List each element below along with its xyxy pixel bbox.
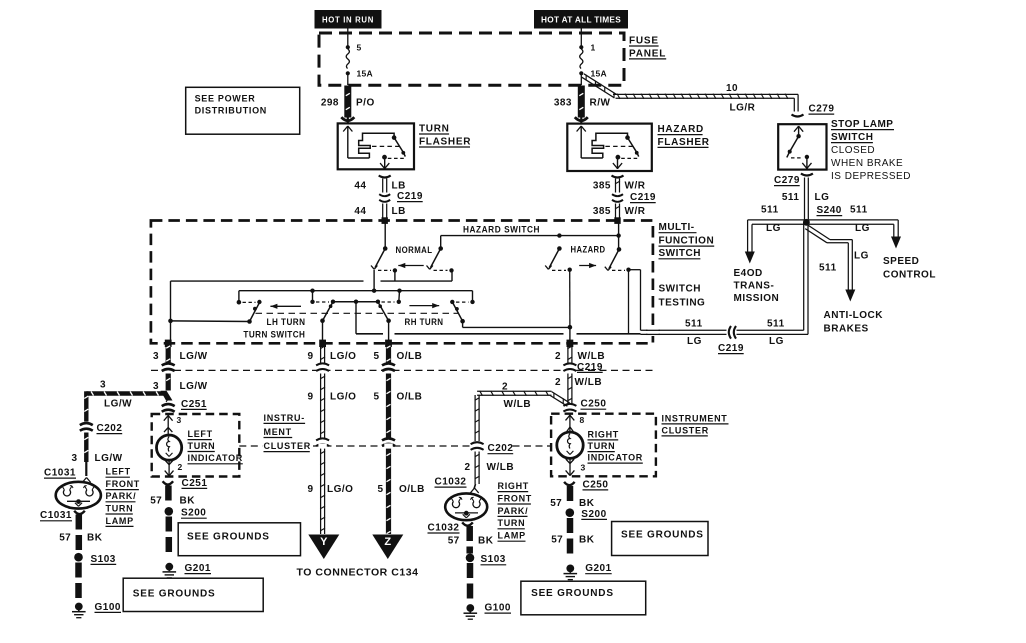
svg-text:LG/O: LG/O [327,484,353,495]
svg-text:TURN: TURN [419,123,450,134]
svg-text:Z: Z [384,536,391,548]
svg-text:INSTRUMENT: INSTRUMENT [662,413,728,423]
svg-text:BK: BK [579,534,595,545]
svg-text:C219: C219 [397,191,423,202]
svg-text:TURN: TURN [106,503,134,513]
svg-text:SEE GROUNDS: SEE GROUNDS [621,529,704,540]
svg-text:FUSE: FUSE [629,35,659,46]
pin 9 drop [322,321,324,344]
svg-text:O/LB: O/LB [397,351,423,362]
svg-text:CLUSTER: CLUSTER [662,425,709,435]
svg-text:8: 8 [580,415,585,425]
svg-text:LG/O: LG/O [330,351,356,362]
svg-text:5: 5 [357,42,362,52]
svg-text:BK: BK [579,498,595,509]
svg-text:3: 3 [71,453,77,464]
svg-text:FLASHER: FLASHER [419,136,471,147]
svg-text:57: 57 [448,535,460,546]
svg-text:W/LB: W/LB [578,351,606,362]
svg-text:FRONT: FRONT [498,493,533,503]
wire 57 BK right indicator lower [567,518,574,533]
hazard contact drop to 511 exit [628,270,630,334]
svg-text:2: 2 [464,462,470,473]
connector C202 left [80,423,93,425]
wire 57 BK left lamp [76,515,83,530]
svg-text:W/R: W/R [625,180,646,191]
wire 2 W/LB branch to right lamp [477,394,551,396]
wire 2 W/LB pin segment [567,343,569,364]
svg-text:MISSION: MISSION [734,293,780,304]
left turn indicator lamp [167,415,169,436]
svg-text:BRAKES: BRAKES [824,323,869,334]
svg-text:W/LB: W/LB [487,462,515,473]
svg-text:C250: C250 [581,399,607,410]
svg-text:STOP LAMP: STOP LAMP [831,119,893,130]
svg-text:W/LB: W/LB [504,399,532,410]
ground G100 left [75,603,83,611]
pin 2 drop [569,327,571,343]
pin 5 drop [388,321,390,344]
fuse 5 15A [347,28,349,47]
svg-text:FUNCTION: FUNCTION [659,236,715,247]
svg-text:C250: C250 [583,479,609,490]
wire 57 BK left indicator [165,486,172,501]
svg-text:LAMP: LAMP [498,531,526,541]
svg-text:O/LB: O/LB [397,391,423,402]
svg-text:HAZARD: HAZARD [658,124,704,135]
svg-text:3: 3 [153,351,159,362]
svg-text:INDICATOR: INDICATOR [188,453,243,463]
svg-text:LEFT: LEFT [188,429,213,439]
svg-text:BK: BK [87,532,103,543]
svg-text:44: 44 [354,180,366,191]
right turn indicator dashed box [551,414,656,477]
label HOT AT ALL TIMES [535,11,628,29]
svg-text:LG/O: LG/O [330,391,356,402]
svg-text:LG/W: LG/W [95,453,123,464]
svg-text:SWITCH: SWITCH [659,284,701,295]
svg-text:HOT IN RUN: HOT IN RUN [322,15,374,25]
svg-text:P/O: P/O [356,97,375,108]
connector C250 below indicator [564,482,575,485]
right turn indicator lamp [569,414,571,432]
svg-text:Y: Y [320,536,328,548]
svg-text:3: 3 [581,463,586,473]
svg-text:385: 385 [593,180,611,191]
svg-text:R/W: R/W [590,97,611,108]
wire 298 P/O [344,86,351,118]
turn switch dashed row [256,312,460,314]
wire 44 into normal switch [384,221,386,249]
wire to G201 left [166,517,173,532]
wire 511 LG stop lamp to S240 [804,178,806,222]
svg-text:INDICATOR: INDICATOR [588,453,643,463]
left turn indicator dashed box [152,414,240,477]
svg-text:HAZARD SWITCH: HAZARD SWITCH [463,225,540,235]
left front park/turn lamp C1031 [85,462,87,476]
svg-text:511: 511 [819,263,837,274]
svg-text:44: 44 [354,206,366,217]
wire 44 LB with connector C219 [379,176,391,178]
svg-text:CONTROL: CONTROL [883,269,936,280]
see power distribution box [186,87,300,134]
svg-text:3: 3 [177,415,182,425]
svg-text:G201: G201 [185,563,211,574]
wire 3 LG/W branch to left lamp [86,391,163,395]
svg-text:57: 57 [150,495,162,506]
hazard flasher U2 [567,124,652,171]
svg-text:TRANS-: TRANS- [734,281,775,292]
svg-text:NORMAL: NORMAL [396,245,433,255]
svg-text:LG/W: LG/W [104,398,132,409]
stop lamp switch S1 [778,124,826,169]
splice S103 left [74,553,83,562]
bus line A [171,280,364,282]
svg-text:LG: LG [766,223,781,234]
svg-text:W/LB: W/LB [575,377,603,388]
svg-text:10: 10 [726,83,738,94]
connector C279 bottom [801,174,813,176]
svg-text:HOT AT ALL TIMES: HOT AT ALL TIMES [541,15,621,25]
svg-text:INSTRU-: INSTRU- [264,413,305,423]
svg-text:S103: S103 [481,554,506,565]
svg-text:PARK/: PARK/ [106,491,137,501]
LH turn contact [237,300,242,305]
svg-text:DISTRIBUTION: DISTRIBUTION [195,106,267,116]
svg-text:RIGHT: RIGHT [498,481,530,491]
hazard switch feed line [441,235,619,237]
pin 3 drop [170,321,172,343]
svg-text:LAMP: LAMP [106,516,134,526]
svg-text:511: 511 [767,319,785,330]
svg-text:LG/W: LG/W [180,351,208,362]
splice S200 left [165,507,174,516]
svg-text:S200: S200 [181,508,206,519]
normal switch contacts [383,246,388,251]
svg-text:LEFT: LEFT [106,467,131,477]
wire 385 W/R with connector C219 [612,176,624,178]
svg-text:SWITCH: SWITCH [831,132,873,143]
connector C1032 lamp bottom [462,522,473,525]
svg-text:LG: LG [769,336,784,347]
hazard switch contacts [557,246,562,251]
svg-text:W/R: W/R [625,206,646,217]
svg-text:TURN: TURN [498,518,526,528]
svg-text:S200: S200 [581,509,606,520]
svg-text:RH TURN: RH TURN [405,317,444,327]
svg-text:SPEED: SPEED [883,256,919,267]
svg-text:3: 3 [100,380,106,391]
svg-text:511: 511 [761,205,779,216]
svg-text:MULTI-: MULTI- [659,222,695,233]
svg-text:SEE GROUNDS: SEE GROUNDS [531,588,614,599]
wire 383 R/W [578,86,585,118]
ground G201 left [165,563,173,571]
svg-text:LH TURN: LH TURN [267,317,306,327]
svg-text:TESTING: TESTING [659,298,706,309]
connector C1031 lamp bottom [74,511,85,514]
svg-text:ANTI-LOCK: ANTI-LOCK [824,310,884,321]
branch to E4OD transmission [748,219,804,221]
svg-text:FLASHER: FLASHER [658,137,710,148]
svg-text:LB: LB [392,206,406,217]
svg-text:LG/R: LG/R [730,103,756,114]
svg-text:SWITCH: SWITCH [659,248,701,259]
svg-text:C202: C202 [97,423,123,434]
svg-text:C219: C219 [718,343,744,354]
svg-text:S103: S103 [91,554,116,565]
svg-text:57: 57 [551,534,563,545]
svg-text:SEE POWER: SEE POWER [195,94,256,104]
wire 10 LG/R [582,77,615,98]
wire 3 LG/W pin segment [166,341,171,364]
svg-text:S240: S240 [817,205,842,216]
center-left contact [310,300,314,304]
svg-text:RIGHT: RIGHT [588,429,620,439]
branch to speed control [809,219,898,221]
svg-text:C219: C219 [577,362,603,373]
pin crossing blocks [165,340,172,347]
svg-text:511: 511 [850,205,868,216]
svg-text:LG: LG [855,223,870,234]
wire 9 LG/O pin segment [320,343,322,364]
wire to G100 left [75,563,82,578]
wire 3 LG/W to left front lamp [84,433,88,463]
ground G201 right [566,565,574,573]
svg-text:15A: 15A [591,69,608,79]
svg-text:2: 2 [555,351,561,362]
hazard contact drop to pin 2 [569,270,571,328]
svg-text:TURN: TURN [588,441,616,451]
svg-text:298: 298 [321,97,339,108]
svg-text:C1032: C1032 [428,522,460,533]
svg-text:LG/W: LG/W [180,381,208,392]
svg-text:LG: LG [854,251,869,262]
svg-text:LB: LB [392,180,406,191]
svg-text:G100: G100 [485,603,511,614]
svg-text:5: 5 [373,351,379,362]
turn flasher U1 [338,123,414,169]
svg-text:C1031: C1031 [40,510,72,521]
svg-text:9: 9 [307,391,313,402]
wire to G100 right [467,563,474,578]
svg-text:LG: LG [687,336,702,347]
svg-text:LG: LG [815,192,830,203]
svg-text:BK: BK [478,535,494,546]
svg-text:C251: C251 [181,399,207,410]
branch to anti-lock brakes [808,225,830,239]
svg-text:C1031: C1031 [44,468,76,479]
svg-text:5: 5 [377,484,383,495]
svg-text:C1032: C1032 [435,477,467,488]
ground G100 right [466,604,474,612]
svg-text:15A: 15A [357,69,374,79]
bus line B [239,290,473,292]
svg-text:2: 2 [178,462,183,472]
right front park/turn lamp C1032 [474,484,476,489]
svg-text:HAZARD: HAZARD [571,245,606,255]
svg-text:CLOSED: CLOSED [831,145,875,156]
splice S103 right [466,554,475,563]
svg-text:57: 57 [550,498,562,509]
svg-text:5: 5 [373,391,379,402]
svg-text:SEE GROUNDS: SEE GROUNDS [133,589,216,600]
svg-text:BK: BK [180,495,196,506]
svg-text:TURN: TURN [188,441,216,451]
svg-text:C279: C279 [809,104,835,115]
splice S240 [803,219,810,226]
instrument cluster dashed line [239,445,262,447]
connector C251 below indicator [163,481,174,484]
wire 5 O/LB pin segment [386,341,391,364]
wire 2 W/LB to right front lamp [474,452,476,485]
svg-text:MENT: MENT [264,427,292,437]
wire 511 LG from switch to S240 with connector C219 [641,329,727,331]
svg-text:C279: C279 [774,175,800,186]
svg-text:O/LB: O/LB [399,484,425,495]
svg-text:E4OD: E4OD [734,268,763,279]
svg-text:385: 385 [593,206,611,217]
svg-text:IS DEPRESSED: IS DEPRESSED [831,171,911,182]
svg-text:CLUSTER: CLUSTER [264,441,311,451]
svg-text:9: 9 [307,351,313,362]
see grounds box right lower [521,581,646,615]
splice S200 right [566,508,575,517]
connector C279 top [792,115,804,117]
label HOT IN RUN [315,11,381,29]
connector Z to C134 [372,535,403,560]
svg-text:511: 511 [685,319,703,330]
RH turn contact far right [450,300,454,304]
svg-text:1: 1 [591,42,596,52]
connector Y to C134 [308,535,339,560]
svg-text:G201: G201 [585,563,611,574]
svg-text:C219: C219 [630,192,656,203]
svg-text:383: 383 [554,97,572,108]
wire 385 into hazard switch [618,221,620,250]
center-right contact [376,300,380,304]
svg-text:57: 57 [59,532,71,543]
see grounds box left lower [123,578,263,611]
connector C202 right [471,442,484,444]
wire 57 BK right indicator upper [567,486,574,501]
svg-text:PARK/: PARK/ [498,506,529,516]
svg-text:2: 2 [555,377,561,388]
svg-text:2: 2 [502,382,508,393]
svg-text:PANEL: PANEL [629,48,666,59]
fuse panel box [319,33,624,85]
center bar [333,301,378,303]
svg-text:511: 511 [782,192,800,203]
svg-text:WHEN BRAKE: WHEN BRAKE [831,158,903,169]
wire 57 BK right lamp [466,526,473,541]
svg-text:SEE GROUNDS: SEE GROUNDS [187,532,270,543]
svg-text:C251: C251 [182,478,208,489]
svg-text:3: 3 [153,381,159,392]
switch testing bottom run [355,302,357,334]
svg-text:9: 9 [307,484,313,495]
connector C219 dashed line [151,369,653,371]
see grounds box left upper [178,523,300,556]
svg-text:FRONT: FRONT [106,479,141,489]
fuse 1 15A [580,28,582,47]
svg-text:TURN SWITCH: TURN SWITCH [243,329,305,339]
multi-function switch box [151,221,653,344]
svg-text:G100: G100 [95,602,121,613]
svg-text:C202: C202 [488,443,514,454]
svg-text:TO CONNECTOR C134: TO CONNECTOR C134 [297,567,419,578]
see grounds box right upper [612,522,708,556]
